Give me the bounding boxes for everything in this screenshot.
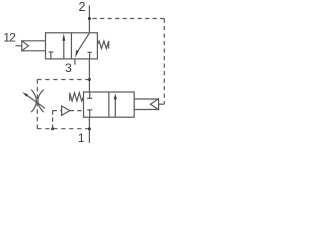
V1 right square: blocked port T (port 1 blocked)	[88, 52, 92, 59]
V2 left square: blocked port T (bottom port)	[87, 110, 92, 117]
V2 right pilot actuator: rails, open triangle pointing left, stub	[134, 99, 164, 110]
wire: V1 port 1 down to valve V2 top port	[88, 59, 90, 92]
pilot line (dashed): bottom horizontal to wire below V2	[37, 128, 89, 130]
V1 left square: blocked port T (port 3 blocked)	[49, 52, 54, 59]
V1 right square: flow path 2 to 3 diagonal with arrowhead	[75, 33, 89, 57]
V2 left pilot actuator: open triangle pointing right	[62, 106, 84, 115]
valve V1 body (3/2-way valve, two position squares)	[46, 33, 98, 59]
svg-text:3: 3	[65, 61, 72, 75]
junction dot on wire at dashed branch to throttle	[88, 78, 91, 81]
pilot line (dashed): right side vertical down to V2 right pilot	[163, 19, 165, 105]
pilot line (dashed): riser from bottom line up to V2 left pilot	[52, 111, 54, 129]
throttle valve F1: adjustment arrow (diagonal, head up-left)	[22, 92, 45, 108]
node 2 junction dot	[88, 17, 91, 20]
pilot line (dashed): left vertical through throttle valve	[36, 80, 38, 129]
V2 return spring (left side)	[70, 93, 84, 101]
svg-text:12: 12	[3, 31, 16, 45]
wire: V2 bottom port down (port 1 line)	[88, 117, 90, 143]
V1 pilot actuator port 12 (left side): supply line, open triangle, rails	[16, 41, 46, 51]
V1 port 3 exhaust stub	[74, 59, 76, 65]
valve V2 body (2/2-way valve, two position squares)	[84, 92, 135, 117]
V2 left square: blocked port T (top port)	[87, 92, 92, 98]
pilot line (dashed): into V2 left pilot triangle	[53, 110, 62, 112]
V1 return spring (right side)	[97, 41, 108, 49]
pilot line (dashed): junction left toward throttle branch corner	[37, 79, 89, 81]
V2 right square: flow arrow (vertical, head up)	[114, 94, 117, 118]
junction dot: bottom dashed line branch to V2 left pilot	[51, 127, 54, 130]
pilot line (dashed): node 2 across top to the right	[89, 18, 164, 20]
wire: node 2 vertical line down to valve V1 port 2	[88, 5, 90, 33]
svg-text:1: 1	[78, 131, 85, 145]
V1 left square: flow arrow 1 to 2 (vertical, head up)	[62, 33, 65, 59]
svg-text:2: 2	[78, 0, 85, 14]
junction dot: bottom dashed line meets port 1 wire	[88, 127, 91, 130]
throttle valve F1: restriction arcs	[31, 90, 43, 113]
